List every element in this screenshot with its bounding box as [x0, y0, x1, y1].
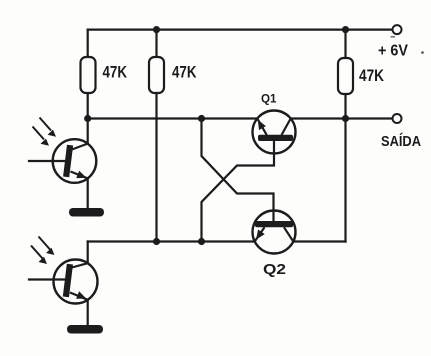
svg-text:47K: 47K — [172, 63, 197, 81]
junction dot top rail / R3 — [342, 26, 349, 33]
wire R2 bottom long vertical to lower rail — [155, 93, 157, 242]
wire Q1 base cross-coupling to lower-left node — [202, 141, 275, 242]
junction dot lower rail / cross wire — [198, 238, 205, 245]
junction dot middle rail / PT1 collector — [84, 115, 91, 122]
wire PT1 emitter to ground — [87, 178, 89, 208]
transistor Q2 — [253, 211, 296, 254]
terminal SAIDA — [393, 114, 402, 123]
junction dot lower rail / R2 column — [153, 238, 160, 245]
wire PT2 collector vertical to lower rail — [87, 242, 89, 264]
resistor R1 47K — [81, 57, 96, 93]
terminal +6V — [393, 25, 402, 34]
wire lower rail right segment (Q2 collector to R3 column) — [293, 240, 345, 242]
wire middle-left node cross-coupling to Q2 base — [202, 119, 274, 222]
wire R3 top stub — [344, 30, 346, 58]
svg-text:47K: 47K — [103, 63, 128, 81]
ground (PT2 emitter) — [67, 325, 103, 334]
transistor Q1 — [253, 111, 296, 154]
svg-text:Q1: Q1 — [261, 91, 277, 105]
noise dash above 6V — [391, 36, 396, 38]
wire PT2 emitter to ground — [87, 300, 89, 325]
svg-text:SAÍDA: SAÍDA — [381, 133, 421, 150]
wire top +6V rail — [88, 29, 393, 31]
wire PT1 base lead — [29, 160, 65, 162]
light arrow PT2 upper — [39, 237, 55, 256]
svg-text:+ 6V: + 6V — [378, 43, 408, 60]
light arrow PT1 lower — [33, 127, 50, 146]
wire R1 bottom to PT1 collector node — [87, 93, 89, 144]
wire middle rail right segment (Q1 collector to SAIDA) — [291, 117, 393, 119]
wire PT2 base lead — [29, 278, 64, 280]
wire middle rail left segment (PT1 collector to Q1 emitter) — [88, 117, 258, 119]
wire left column top (rail to R1) — [87, 30, 89, 57]
light arrow PT1 upper — [40, 118, 57, 137]
junction dot top rail / R2 — [153, 26, 160, 33]
resistor R3 47K — [338, 58, 353, 94]
svg-text:Q2: Q2 — [263, 261, 286, 278]
light arrow PT2 lower — [31, 246, 47, 265]
svg-text:47K: 47K — [359, 67, 384, 85]
phototransistor PT2 — [54, 260, 98, 304]
phototransistor PT1 — [53, 139, 97, 183]
ground (PT1 emitter) — [69, 208, 104, 217]
wire lower rail left segment (PT2 collector to Q2 emitter) — [88, 240, 255, 242]
wire R2 top stub — [155, 30, 157, 57]
wire R3 bottom vertical down to Q2 collector rail — [344, 94, 346, 242]
resistor R2 47K — [149, 57, 164, 93]
junction dot middle rail / cross wire — [198, 115, 205, 122]
junction dot middle rail / R3 column — [342, 115, 349, 122]
noise speck right of +6V — [421, 51, 424, 54]
